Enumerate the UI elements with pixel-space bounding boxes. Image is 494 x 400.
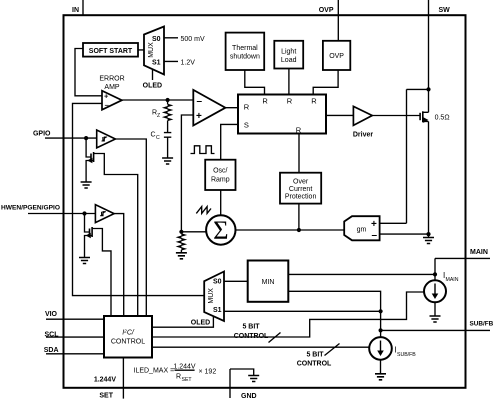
svg-text:Osc/: Osc/ <box>213 168 227 175</box>
svg-text:OLED: OLED <box>191 319 210 326</box>
svg-text:gm: gm <box>357 227 367 234</box>
svg-text:shutdown: shutdown <box>230 54 260 61</box>
svg-text:Thermal: Thermal <box>232 45 258 52</box>
svg-text:OLED: OLED <box>143 82 162 89</box>
svg-text:S0: S0 <box>213 279 222 286</box>
svg-text:ERROR: ERROR <box>99 76 124 83</box>
svg-text:Load: Load <box>281 57 297 64</box>
svg-text:–: – <box>372 230 378 241</box>
svg-text:SET: SET <box>182 377 193 383</box>
svg-text:C: C <box>156 135 160 141</box>
svg-text:MAIN: MAIN <box>446 277 459 283</box>
svg-text:–: – <box>197 96 203 107</box>
svg-text:MUX: MUX <box>148 42 155 58</box>
svg-text:R: R <box>244 102 250 111</box>
svg-text:R: R <box>311 97 317 106</box>
svg-text:SW: SW <box>439 7 451 14</box>
svg-text:S: S <box>244 120 249 129</box>
svg-text:1.244V: 1.244V <box>173 363 196 370</box>
svg-text:GND: GND <box>241 393 257 400</box>
svg-text:CONTROL: CONTROL <box>111 339 145 346</box>
svg-text:1.2V: 1.2V <box>181 59 196 66</box>
svg-text:SUB/FB: SUB/FB <box>470 320 494 327</box>
svg-text:S0: S0 <box>152 36 161 43</box>
svg-text:ILED_MAX =: ILED_MAX = <box>134 367 175 374</box>
svg-text:× 192: × 192 <box>199 368 217 375</box>
svg-text:CONTROL: CONTROL <box>297 360 332 367</box>
svg-text:Protection: Protection <box>285 194 317 201</box>
svg-text:0.5Ω: 0.5Ω <box>435 115 450 122</box>
svg-text:+: + <box>196 111 202 122</box>
svg-text:Current: Current <box>289 186 312 193</box>
svg-text:OVP: OVP <box>329 53 344 60</box>
svg-text:MIN: MIN <box>262 279 275 286</box>
svg-text:I2C/: I2C/ <box>122 329 135 337</box>
svg-text:HWEN/PGEN/GPIO: HWEN/PGEN/GPIO <box>1 205 60 212</box>
svg-text:SET: SET <box>99 392 113 399</box>
svg-text:Ramp: Ramp <box>211 177 230 184</box>
svg-text:–: – <box>105 100 109 109</box>
svg-text:5 BIT: 5 BIT <box>242 324 260 331</box>
svg-text:Σ: Σ <box>213 215 228 245</box>
svg-text:R: R <box>176 373 181 380</box>
svg-text:GPIO: GPIO <box>33 130 51 137</box>
svg-text:R: R <box>287 97 293 106</box>
svg-text:+: + <box>104 92 109 101</box>
svg-text:Light: Light <box>281 49 296 56</box>
svg-text:S1: S1 <box>213 307 222 314</box>
svg-text:Z: Z <box>157 113 160 119</box>
svg-text:R: R <box>296 125 302 134</box>
svg-text:VIO: VIO <box>45 311 58 318</box>
svg-text:SOFT START: SOFT START <box>89 48 133 55</box>
svg-text:S1: S1 <box>152 59 161 66</box>
svg-text:C: C <box>151 132 156 139</box>
svg-text:CONTROL: CONTROL <box>234 333 269 340</box>
svg-text:5 BIT: 5 BIT <box>306 351 324 358</box>
svg-text:1.244V: 1.244V <box>94 376 117 383</box>
svg-text:500 mV: 500 mV <box>181 36 205 43</box>
svg-text:Driver: Driver <box>353 132 374 139</box>
svg-text:OVP: OVP <box>319 7 334 14</box>
svg-text:Over: Over <box>293 179 309 186</box>
svg-text:SUB/FB: SUB/FB <box>397 352 416 358</box>
svg-text:MAIN: MAIN <box>470 249 488 256</box>
svg-text:AMP: AMP <box>104 84 120 91</box>
svg-text:SCL: SCL <box>45 332 60 339</box>
svg-text:MUX: MUX <box>208 288 215 304</box>
svg-text:R: R <box>262 97 268 106</box>
svg-text:IN: IN <box>72 7 79 14</box>
svg-text:+: + <box>371 219 377 230</box>
svg-text:SDA: SDA <box>44 347 59 354</box>
